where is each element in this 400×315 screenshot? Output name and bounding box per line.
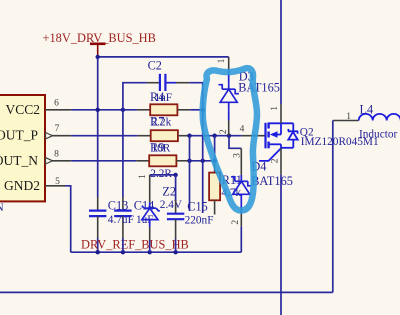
svg-text:2: 2: [271, 158, 281, 163]
wire L4 left vertical: [332, 121, 334, 293]
wire C14 vertical from row6: [122, 110, 124, 197]
svg-text:2.4V: 2.4V: [160, 199, 183, 211]
zener Z2 bottom pin: [149, 227, 151, 240]
svg-text:BAT165: BAT165: [238, 81, 280, 95]
node row8 x202.7: [201, 159, 205, 163]
wire row7 right: [189, 135, 242, 137]
capacitor C2 left pin: [147, 82, 159, 84]
node rail x149.7: [148, 250, 152, 254]
wire D4 to rail: [240, 226, 242, 252]
svg-text:4: 4: [240, 124, 245, 134]
svg-text:3: 3: [233, 153, 243, 158]
wire GND2 to rail: [65, 186, 71, 252]
resistor R9 left pin: [136, 160, 149, 162]
wire C15 top: [175, 175, 177, 200]
svg-text:OUT_N: OUT_N: [0, 153, 38, 168]
resistor R7 right pin: [178, 135, 189, 137]
svg-text:GND2: GND2: [4, 178, 40, 193]
node row7 x214.6: [212, 134, 216, 138]
transistor Q2: [266, 123, 299, 149]
wire row7 left: [71, 135, 138, 137]
node rail x122.9: [121, 250, 125, 254]
wire C13 to rail: [97, 238, 99, 252]
svg-text:Z2: Z2: [162, 185, 176, 199]
wire bottom rail: [71, 251, 242, 253]
svg-text:7: 7: [55, 124, 60, 134]
svg-text:1: 1: [270, 106, 280, 111]
svg-text:220nF: 220nF: [185, 215, 214, 227]
Q2 kelvin pin diagonal: [259, 148, 281, 161]
svg-text:6: 6: [54, 98, 59, 108]
wire x190 row7-row8: [189, 136, 191, 161]
wire x202.7 below row8: [202, 161, 204, 213]
power bar symbol: [90, 42, 106, 45]
highlighter annotation loop: [203, 68, 257, 210]
svg-text:1: 1: [346, 112, 351, 122]
svg-text:10R: 10R: [152, 142, 171, 154]
wire row8 right: [189, 160, 215, 162]
svg-text:8: 8: [54, 149, 59, 159]
diode D4: [231, 175, 251, 214]
node row6 x202.7: [201, 108, 205, 112]
wire row8 left: [71, 160, 136, 162]
resistor R7: [151, 130, 178, 141]
capacitor C15 top pin: [175, 200, 177, 213]
wire Z2 top: [150, 174, 176, 176]
wire C14 to rail: [122, 238, 124, 252]
svg-text:C15: C15: [187, 200, 208, 214]
resistor R9: [149, 155, 176, 166]
wire C15 to rail: [175, 239, 177, 252]
node top rail junction: [96, 55, 100, 59]
diode D3 top pin: [228, 57, 230, 70]
Q2 source pin: [280, 148, 282, 174]
svg-text:1: 1: [217, 58, 227, 63]
svg-text:N: N: [0, 202, 4, 214]
svg-text:2: 2: [231, 220, 241, 225]
Q2 source arrow: [270, 131, 278, 138]
pin 7 out arrow: [46, 133, 53, 139]
wire bottom long rail: [0, 291, 333, 293]
capacitor C14: [114, 211, 131, 217]
svg-text:OUT_P: OUT_P: [0, 128, 38, 143]
svg-text:R4: R4: [150, 90, 164, 104]
wire top rail: [98, 56, 229, 58]
resistor R4: [150, 104, 177, 115]
inductor L4: [359, 114, 400, 121]
wire source down: [280, 175, 282, 315]
svg-text:2.2k: 2.2k: [152, 117, 172, 129]
pin 8: [45, 160, 71, 162]
pin 8 out arrow: [46, 158, 53, 164]
wire vertical VCC net x=97.7: [97, 57, 99, 197]
resistor R9 right pin: [176, 160, 189, 162]
svg-text:BAT165: BAT165: [251, 174, 293, 188]
svg-text:C13: C13: [108, 199, 129, 213]
resistor R11 vertical: [209, 173, 220, 201]
pin 5: [45, 185, 65, 187]
svg-text:VCC2: VCC2: [5, 102, 40, 117]
svg-text:C2: C2: [148, 59, 162, 73]
resistor R11 top pin: [214, 161, 216, 173]
node row6 x122.9: [121, 108, 125, 112]
pin 6: [45, 109, 71, 111]
node row6 x97.7: [96, 108, 100, 112]
capacitor C14 bottom pin: [122, 216, 124, 238]
diode D4 top pin: [240, 148, 242, 175]
resistor R11 bottom pin: [214, 200, 216, 214]
resistor R4 left pin: [137, 109, 150, 111]
wire Z2 to rail: [149, 240, 151, 252]
wire x202.7 c2 net vertical: [202, 110, 204, 161]
capacitor C13: [89, 211, 106, 217]
svg-text:L4: L4: [360, 102, 374, 116]
wire row6 left: [71, 109, 137, 111]
resistor R4 right pin: [177, 109, 190, 111]
pin 7: [45, 135, 71, 137]
node row7 x229: [227, 134, 231, 138]
capacitor C14 top pin: [122, 197, 124, 210]
capacitor C2 right pin: [165, 82, 176, 84]
svg-text:4.7uF: 4.7uF: [108, 214, 134, 226]
node row8 x214.6: [212, 159, 216, 163]
diode D3 bottom pin: [228, 110, 230, 120]
node row8 x189.5: [187, 159, 191, 163]
diode D3: [219, 83, 239, 110]
wire C2 left: [123, 83, 147, 110]
Q2 drain pin: [280, 104, 282, 123]
zener Z2: [142, 202, 160, 227]
node rail x97.7: [96, 250, 100, 254]
wire row6 right: [190, 109, 203, 111]
svg-text:2: 2: [219, 129, 229, 134]
zener Z2 top pin: [149, 175, 151, 203]
inductor L4 pin 1: [333, 120, 359, 122]
node x175.6 y174.9: [173, 173, 177, 177]
capacitor C15 bottom pin: [175, 219, 177, 239]
wire x214.6 row7-row8: [214, 136, 216, 161]
svg-text:Inductor: Inductor: [359, 129, 398, 141]
wire C13 top pin: [97, 197, 99, 210]
capacitor C15: [167, 214, 184, 220]
svg-text:2.2R: 2.2R: [150, 168, 172, 180]
svg-text:DRV_REF_BUS_HB: DRV_REF_BUS_HB: [81, 237, 189, 251]
wire C2 right: [189, 83, 202, 110]
IC box U?: [0, 95, 45, 201]
svg-text:1: 1: [138, 174, 148, 179]
resistor R7 left pin: [138, 135, 151, 137]
wire Q2 gate pin: [241, 135, 265, 137]
node row7 x189.5: [187, 134, 191, 138]
wire jog row7 to D4: [229, 136, 241, 149]
capacitor C2: [160, 74, 166, 91]
wire drain up: [280, 0, 282, 104]
svg-text:5: 5: [55, 177, 60, 187]
wire C13 bottom pin: [97, 216, 99, 238]
diode D4 bottom pin: [240, 214, 242, 227]
wire x190 below row8: [189, 161, 191, 211]
node rail x175.6: [173, 250, 177, 254]
